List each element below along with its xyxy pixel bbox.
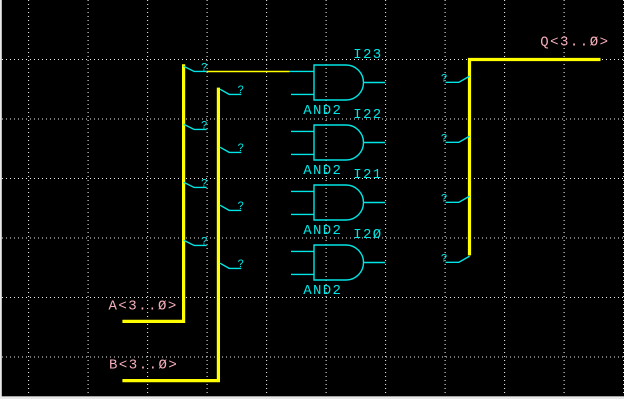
window border bottom [0,396,624,399]
svg-text:A<3..Ø>: A<3..Ø> [109,299,178,315]
and-gate I22 [291,125,385,160]
bus tap Q bit (gate I20 out) [446,256,470,262]
svg-text:?: ? [237,143,244,155]
svg-text:I2Ø: I2Ø [353,227,382,243]
svg-text:B<3..Ø>: B<3..Ø> [109,357,178,373]
svg-text:?: ? [441,193,448,205]
bus Q<3..0> [470,60,601,256]
svg-text:AND2: AND2 [303,103,342,119]
svg-text:?: ? [441,73,448,85]
svg-text:?: ? [201,236,208,248]
and-gate I20 [291,245,385,280]
bus tap B bit (gate I21 in2) [220,205,241,210]
bus tap A bit (gate I20 in1) [184,240,207,245]
bus A<3..0> [122,64,183,321]
svg-text:I23: I23 [353,47,382,63]
svg-text:?: ? [237,85,244,97]
wire net to I23 in1 (yellow) [207,70,290,72]
svg-text:Q<3..Ø>: Q<3..Ø> [540,35,609,51]
bus tap B bit (gate I20 in2) [220,263,241,268]
svg-text:?: ? [441,253,448,265]
svg-text:I22: I22 [353,107,382,123]
bus tap B bit (gate I23 in2) [220,89,241,94]
svg-text:?: ? [201,120,208,132]
svg-text:AND2: AND2 [303,283,342,299]
svg-text:I21: I21 [353,167,382,183]
bus tap Q bit (gate I23 out) [446,76,470,82]
bus tap Q bit (gate I21 out) [446,196,470,202]
bus tap A bit (gate I23 in1) [184,66,207,71]
bus tap A bit (gate I22 in1) [184,124,207,129]
bus tap A bit (gate I21 in1) [184,182,207,187]
svg-text:?: ? [201,178,208,190]
svg-text:?: ? [201,62,208,74]
and-gate I21 [291,185,385,220]
bus B<3..0> [122,88,218,381]
svg-text:?: ? [441,133,448,145]
svg-text:AND2: AND2 [303,223,342,239]
bus tap Q bit (gate I22 out) [446,136,470,142]
svg-text:?: ? [237,201,244,213]
svg-text:?: ? [237,259,244,271]
window border left [0,0,2,399]
svg-text:AND2: AND2 [303,163,342,179]
bus tap B bit (gate I22 in2) [220,147,241,152]
and-gate I23 [290,65,386,100]
